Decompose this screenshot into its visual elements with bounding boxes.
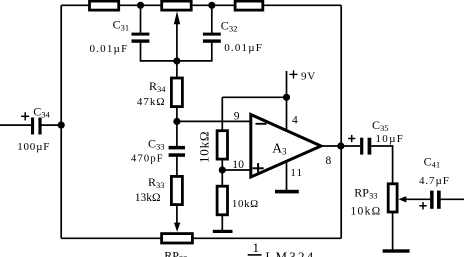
plus sign C41: [419, 202, 426, 209]
wire pin9 input: [177, 120, 251, 122]
wire C34 right lead: [41, 124, 61, 126]
wire C31 to node A: [141, 43, 177, 61]
capacitor C41 plates: [430, 191, 434, 209]
capacitor C33 plates: [169, 146, 185, 150]
wire +9V supply line: [286, 71, 288, 131]
wire C32 top drop: [211, 5, 213, 33]
plus sign C35: [348, 135, 355, 142]
resistor top-left box: [90, 1, 119, 10]
wire node A to R34: [176, 61, 178, 77]
op-amp minus symbol: [256, 123, 267, 125]
svg-text:10kΩ: 10kΩ: [232, 198, 259, 210]
svg-text:1: 1: [253, 240, 260, 255]
capacitor C32 plates: [203, 33, 221, 36]
junction node B (R34 bottom): [173, 118, 180, 125]
svg-text:10µF: 10µF: [376, 133, 405, 145]
wire C34 left lead: [0, 124, 31, 126]
junction C34: [58, 122, 65, 129]
capacitor C35 plates: [360, 138, 363, 155]
junction dot top-left: [137, 2, 144, 9]
plus sign +9V: [289, 70, 297, 78]
wire left border: [60, 5, 62, 238]
svg-text:LM324: LM324: [265, 249, 315, 257]
capacitor C34 plates: [31, 118, 34, 135]
svg-text:9V: 9V: [301, 71, 316, 83]
ground bar RP33: [383, 249, 410, 252]
svg-text:470pF: 470pF: [131, 154, 164, 165]
svg-text:0.01µF: 0.01µF: [224, 42, 263, 54]
label fraction bar: [248, 254, 262, 256]
wire divider drop to 10k: [221, 97, 223, 131]
wire pin11 to ground: [286, 161, 288, 190]
wire +9V rail horizontal: [222, 96, 286, 98]
svg-text:47kΩ: 47kΩ: [137, 96, 166, 108]
svg-text:10kΩ: 10kΩ: [351, 205, 382, 217]
wire C33 to R33: [176, 157, 178, 176]
wire C32 to node A: [177, 43, 212, 61]
wire C41 right lead: [441, 198, 464, 200]
plus sign C34: [21, 112, 29, 120]
svg-text:8: 8: [326, 155, 332, 167]
wire C31 top drop: [140, 5, 142, 33]
wire RP33 to ground: [392, 212, 394, 250]
svg-text:13kΩ: 13kΩ: [135, 192, 161, 204]
potentiometer RP32 body (bottom): [162, 234, 193, 243]
svg-text:4.7µF: 4.7µF: [419, 175, 450, 187]
wire wiper RP top: [176, 24, 178, 61]
wire RP33 wiper tail: [405, 198, 430, 200]
wire 10k to node C: [221, 159, 223, 186]
wire top border: [61, 4, 341, 6]
potentiometer RP33 wiper arrow: [399, 196, 407, 202]
svg-text:9: 9: [234, 111, 240, 123]
resistor R34 47k body: [171, 78, 182, 107]
arrow into RP32: [174, 223, 180, 232]
wire bottom border: [61, 237, 341, 239]
wire node B to C33: [176, 121, 178, 146]
op-amp A3 triangle: [251, 115, 321, 178]
potentiometer RP31 wiper arrow: [174, 11, 180, 24]
wire right border: [340, 5, 342, 238]
wire pin10 input: [222, 169, 251, 171]
op-amp plus symbol: [253, 163, 264, 173]
svg-text:11: 11: [290, 167, 303, 179]
junction dot top-right: [208, 2, 215, 9]
svg-text:0.01µF: 0.01µF: [90, 43, 129, 55]
resistor R33 13k body: [171, 176, 182, 204]
capacitor C31 plates: [132, 33, 150, 36]
junction +9V: [283, 94, 290, 101]
ground bar pin11: [275, 190, 299, 194]
wire output pin8: [321, 145, 360, 147]
junction output: [337, 142, 344, 149]
wire R34 to node B: [176, 108, 178, 122]
resistor top-right box: [235, 1, 263, 10]
wire R33 to RP32 arrow: [176, 206, 178, 225]
svg-text:100µF: 100µF: [17, 141, 50, 153]
svg-text:10: 10: [232, 159, 244, 171]
junction node A: [173, 57, 180, 64]
resistor 10k lower body: [217, 186, 227, 215]
wire C35 to corner: [371, 146, 392, 184]
wire 10k lower to ground: [221, 215, 223, 231]
ground bar divider: [213, 230, 233, 233]
svg-text:4: 4: [292, 115, 298, 127]
potentiometer RP31 body (top): [162, 1, 192, 10]
resistor 10k upper body: [217, 131, 227, 159]
potentiometer RP33 body: [388, 184, 397, 212]
junction node C (pin10): [219, 166, 226, 173]
svg-text:10kΩ: 10kΩ: [196, 131, 211, 163]
